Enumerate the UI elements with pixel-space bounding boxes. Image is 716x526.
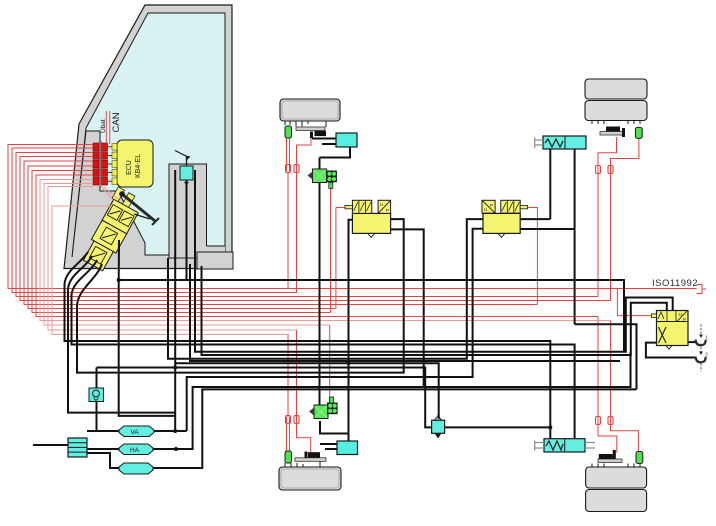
svg-text:2: 2 xyxy=(705,353,708,359)
svg-text:VA: VA xyxy=(131,429,140,436)
svg-text:P: P xyxy=(490,203,493,208)
svg-text:ISO11992: ISO11992 xyxy=(652,278,698,289)
svg-text:U: U xyxy=(484,207,487,212)
svg-text:U: U xyxy=(380,202,383,207)
svg-text:U: U xyxy=(679,312,682,317)
svg-text:1: 1 xyxy=(705,336,708,342)
svg-text:P: P xyxy=(683,317,686,322)
svg-text:P: P xyxy=(386,208,389,213)
svg-text:HA: HA xyxy=(130,447,140,454)
svg-text:KB4-EL: KB4-EL xyxy=(135,154,142,178)
svg-text:ECU: ECU xyxy=(126,160,133,175)
svg-text:CAN: CAN xyxy=(111,112,122,132)
